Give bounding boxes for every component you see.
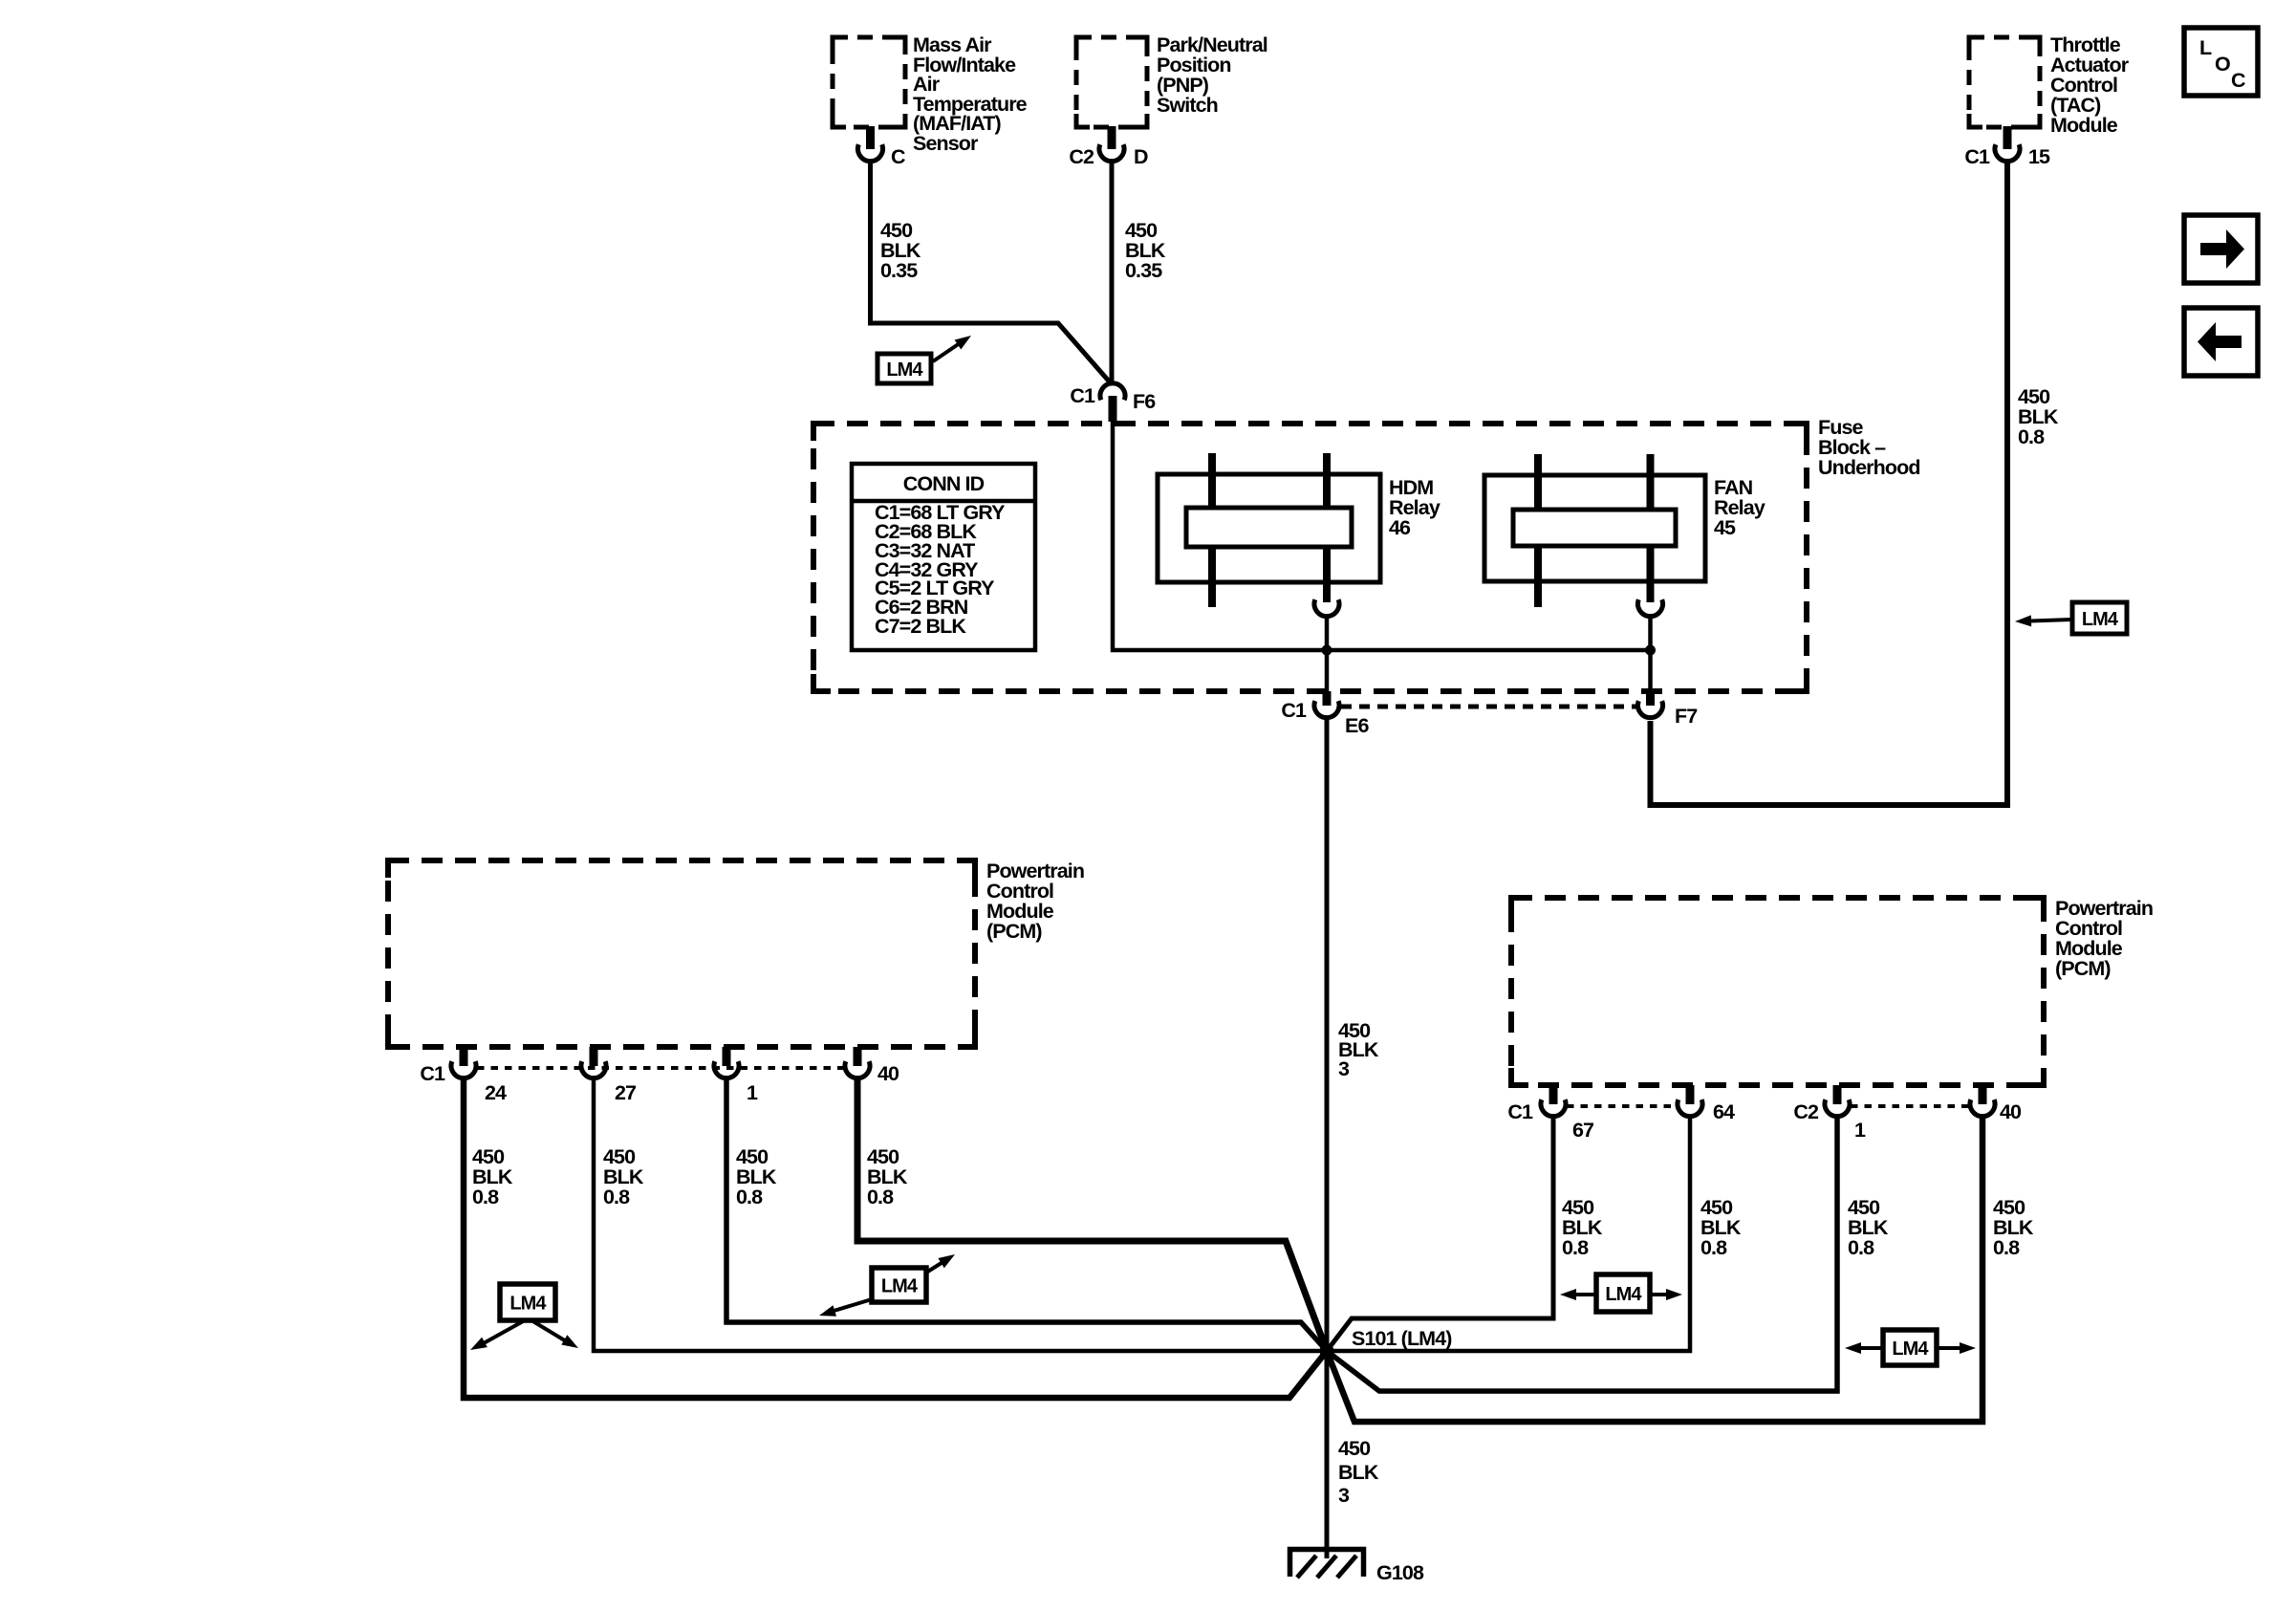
dotted connector line C1 (right PCM) — [1567, 1104, 1678, 1108]
connector C1 cavity F6 (fuse block input) — [1070, 383, 1156, 422]
page-continue arrow left box — [2184, 308, 2258, 376]
ground G108 — [1290, 1550, 1364, 1578]
left PCM connector C1 pin 24 — [451, 1047, 476, 1078]
svg-text:C1: C1 — [1070, 384, 1095, 407]
connector C1 pin 15 (TAC) — [1964, 126, 2050, 168]
svg-text:CONN ID: CONN ID — [903, 472, 985, 495]
connector cavity F7 — [1638, 691, 1699, 728]
svg-text:C: C — [2231, 69, 2245, 92]
right PCM connector pin 67 — [1541, 1085, 1566, 1117]
net tag LM4 (MAF/PNP wire) with arrow — [877, 336, 971, 383]
svg-text:Underhood: Underhood — [1818, 456, 1920, 479]
connector C2 pin D (PNP) — [1069, 126, 1148, 168]
wire 450 BLK 0.8 from TAC pin 15 to fuse block F7 — [1651, 159, 2008, 805]
MAF/IAT sensor box — [833, 37, 905, 127]
svg-text:0.8: 0.8 — [603, 1186, 630, 1208]
svg-text:Sensor: Sensor — [913, 132, 979, 155]
svg-text:0.8: 0.8 — [1562, 1236, 1589, 1259]
svg-text:0.8: 0.8 — [1993, 1236, 2020, 1259]
svg-text:15: 15 — [2028, 145, 2050, 168]
svg-text:46: 46 — [1389, 516, 1411, 539]
svg-text:0.8: 0.8 — [1848, 1236, 1874, 1259]
svg-text:C2: C2 — [1069, 145, 1094, 168]
svg-text:F6: F6 — [1133, 390, 1156, 413]
svg-text:S101 (LM4): S101 (LM4) — [1352, 1327, 1452, 1350]
Powertrain Control Module (left) box — [388, 860, 975, 1047]
right PCM connector pin 1 — [1825, 1085, 1850, 1117]
svg-text:450: 450 — [1338, 1437, 1371, 1460]
wire 450 BLK 0.8 pin 1 to S101 — [726, 1078, 1327, 1351]
connector C1 cavity E6 — [1281, 691, 1369, 737]
svg-text:0.8: 0.8 — [867, 1186, 894, 1208]
left PCM connector C1 pin 27 — [581, 1047, 606, 1078]
svg-text:Module: Module — [2050, 114, 2118, 137]
wire 450 BLK 0.8 pin 24 to S101 — [464, 1078, 1327, 1398]
Fuse Block - Underhood box — [813, 424, 1807, 691]
svg-text:BLK: BLK — [1338, 1461, 1379, 1484]
LOC legend box — [2184, 28, 2258, 96]
svg-text:0.8: 0.8 — [2018, 425, 2045, 448]
wire 450 BLK 0.8 pin C2-40 to S101 — [1327, 1116, 1982, 1422]
wire 450 BLK 0.8 pin 40 to S101 — [857, 1078, 1327, 1351]
svg-text:LM4: LM4 — [886, 359, 923, 381]
wire 450 BLK 0.8 pin 27 to S101 — [594, 1078, 1323, 1351]
dotted connector line C1 (left PCM) — [477, 1066, 844, 1070]
svg-text:1: 1 — [1854, 1119, 1866, 1142]
svg-text:E6: E6 — [1345, 714, 1369, 737]
svg-text:0.8: 0.8 — [1700, 1236, 1727, 1259]
net tag LM4 (pins C2-1/C2-40 wires) with arrows — [1845, 1330, 1976, 1365]
svg-text:C1: C1 — [420, 1062, 445, 1085]
Throttle Actuator Control module box — [1969, 37, 2040, 127]
HDM Relay 46 — [1158, 453, 1440, 607]
svg-text:3: 3 — [1338, 1057, 1350, 1080]
svg-text:67: 67 — [1572, 1119, 1594, 1142]
wire 450 BLK 0.35 from MAF pin C to fuse block C1 F6 — [871, 159, 1113, 384]
svg-text:C1: C1 — [1507, 1100, 1533, 1123]
net tag LM4 (pins 24/27 wires) with arrows — [470, 1284, 578, 1350]
svg-text:D: D — [1134, 145, 1148, 168]
wire 450 BLK 0.8 pin 67 to S101 — [1327, 1116, 1553, 1351]
svg-text:1: 1 — [747, 1081, 758, 1104]
svg-text:40: 40 — [877, 1062, 899, 1085]
svg-text:C: C — [891, 145, 905, 168]
splice S101 (LM4) — [1320, 1344, 1334, 1359]
svg-text:C2: C2 — [1793, 1100, 1819, 1123]
svg-text:LM4: LM4 — [1892, 1339, 1929, 1360]
svg-text:C1: C1 — [1964, 145, 1990, 168]
Powertrain Control Module (right) box — [1511, 898, 2044, 1085]
net tag LM4 (pins 1/40 wires) with arrows — [819, 1254, 955, 1317]
svg-text:LM4: LM4 — [881, 1276, 919, 1297]
svg-text:27: 27 — [615, 1081, 637, 1104]
wire HDM relay to E6 — [1325, 616, 1330, 691]
svg-text:0.8: 0.8 — [472, 1186, 499, 1208]
junction dot (bus / FAN wire) — [1645, 645, 1656, 656]
wire 450 BLK 0.35 from PNP pin D to fuse block C1 F6 — [1110, 159, 1115, 384]
svg-text:45: 45 — [1714, 516, 1736, 539]
right PCM connector pin 40 — [1970, 1085, 1995, 1117]
left PCM connector C1 pin 1 — [714, 1047, 739, 1078]
svg-text:LM4: LM4 — [2082, 609, 2119, 630]
svg-text:F7: F7 — [1675, 705, 1698, 728]
svg-text:0.8: 0.8 — [736, 1186, 763, 1208]
svg-text:(PCM): (PCM) — [986, 920, 1042, 943]
Park/Neutral Position switch box — [1076, 37, 1147, 127]
FAN relay output connector — [1638, 599, 1663, 616]
wire 450 BLK 3 from E6 to splice S101 and to G108 — [1325, 717, 1330, 1558]
HDM relay output connector — [1314, 599, 1339, 616]
svg-text:LM4: LM4 — [509, 1294, 547, 1315]
left PCM connector C1 pin 40 — [845, 1047, 870, 1078]
FAN Relay 45 — [1484, 454, 1765, 607]
wire F6 to relays bus (inside fuse block) — [1113, 421, 1651, 650]
svg-text:64: 64 — [1713, 1100, 1735, 1123]
dashed connector line E6 to F7 — [1341, 705, 1636, 709]
svg-text:O: O — [2215, 53, 2230, 76]
dotted connector line C2 (right PCM) — [1851, 1104, 1970, 1108]
junction dot (bus / HDM wire) — [1322, 645, 1332, 656]
svg-text:C1: C1 — [1281, 699, 1307, 722]
connector pin C (MAF/IAT) — [858, 126, 906, 168]
svg-text:C7=2 BLK: C7=2 BLK — [875, 615, 966, 638]
svg-text:G108: G108 — [1376, 1561, 1424, 1584]
net tag LM4 (pins 67/64 wires) with arrows — [1560, 1274, 1682, 1312]
svg-text:3: 3 — [1338, 1484, 1350, 1507]
wire 450 BLK 0.8 pin 64 to S101 — [1331, 1116, 1690, 1351]
svg-text:Switch: Switch — [1157, 94, 1218, 117]
wire 450 BLK 0.8 pin C2-1 to S101 — [1327, 1116, 1837, 1391]
svg-text:40: 40 — [2000, 1100, 2022, 1123]
right PCM connector pin 64 — [1678, 1085, 1702, 1117]
svg-text:LM4: LM4 — [1605, 1284, 1642, 1305]
page-continue arrow right box — [2184, 215, 2258, 283]
svg-text:0.35: 0.35 — [880, 259, 918, 282]
wire FAN relay to F7 — [1648, 616, 1653, 691]
CONN ID table — [852, 464, 1035, 650]
svg-text:0.35: 0.35 — [1125, 259, 1162, 282]
net tag LM4 (TAC wire) with arrow — [2015, 602, 2127, 634]
svg-text:L: L — [2199, 36, 2212, 59]
svg-text:24: 24 — [485, 1081, 507, 1104]
svg-text:(PCM): (PCM) — [2055, 957, 2111, 980]
